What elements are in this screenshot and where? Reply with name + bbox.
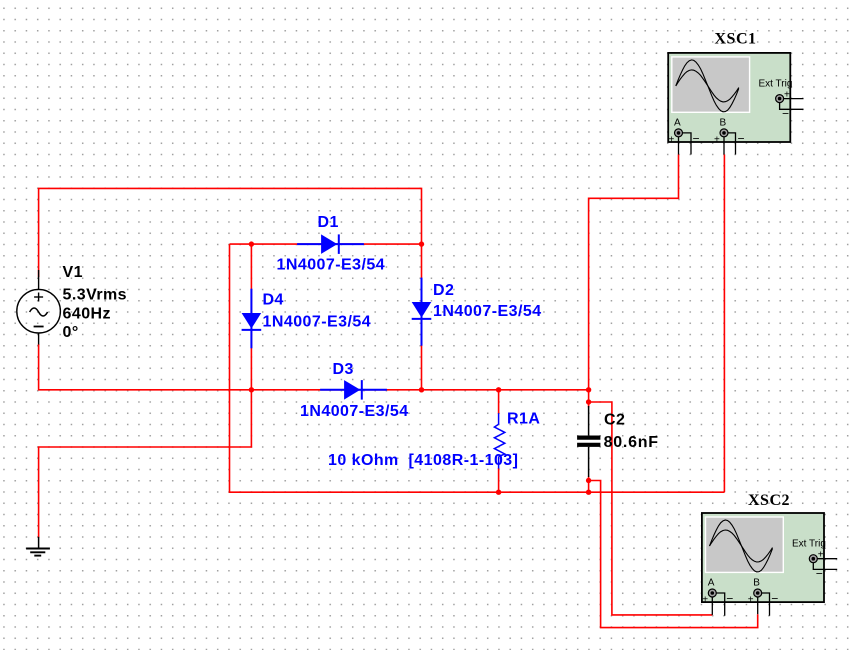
svg-text:B: B: [720, 118, 727, 129]
XSC1 terminal B: [714, 118, 745, 146]
resistor R1A: [494, 413, 504, 468]
XSC1 channel A pin stubs: [679, 133, 692, 155]
svg-text:+: +: [702, 595, 708, 606]
svg-text:C2: C2: [604, 412, 625, 429]
wire left leg and bottom rail: [230, 244, 725, 492]
svg-text:A: A: [708, 578, 715, 589]
XSC2 channel B pin stubs: [758, 593, 770, 616]
XSC2 terminal B: [748, 578, 779, 606]
svg-text:V1: V1: [63, 264, 83, 281]
XSC1 ext trig pin stubs: [780, 99, 804, 110]
svg-text:Ext Trig: Ext Trig: [792, 539, 826, 550]
source V1: [17, 270, 61, 345]
svg-text:Ext Trig: Ext Trig: [759, 79, 793, 90]
node junction C2 bottom rail: [586, 490, 591, 495]
XSC1 terminal A: [669, 118, 700, 146]
wire XSC1 channel A to output node: [589, 155, 679, 390]
svg-text:1N4007-E3/54: 1N4007-E3/54: [277, 257, 386, 274]
node junction XSC2 B tap: [586, 478, 591, 483]
wire XSC1 channel B to bottom rail: [723, 155, 725, 493]
svg-text:+: +: [784, 90, 790, 101]
XSC2 terminal A: [702, 578, 733, 606]
wire ground branch: [39, 390, 252, 538]
wire D4 column: [250, 244, 252, 390]
diode D4: [242, 289, 262, 349]
svg-text:A: A: [674, 118, 681, 129]
svg-text:1N4007-E3/54: 1N4007-E3/54: [300, 403, 409, 420]
XSC1 channel B pin stubs: [724, 133, 736, 155]
wire V1 bottom to D3 row: [39, 344, 589, 390]
svg-text:640Hz: 640Hz: [63, 306, 112, 323]
svg-text:−: −: [738, 132, 745, 146]
node junction D1 anode / D4: [249, 241, 254, 246]
ground: [26, 537, 50, 556]
node junction D1 cathode / D2: [419, 241, 424, 246]
capacitor C2: [577, 406, 600, 477]
oscilloscope XSC1: [668, 53, 790, 142]
svg-text:−: −: [782, 107, 789, 121]
wire D1 row: [230, 243, 422, 245]
node junction D4 / D3 row: [249, 387, 254, 392]
svg-text:−: −: [726, 592, 733, 606]
svg-text:D2: D2: [433, 282, 454, 299]
wire D2 column: [421, 244, 423, 390]
wire top rail from V1 plus to D1 output column: [39, 188, 422, 277]
node junction XSC2 A tap: [586, 399, 591, 404]
svg-text:+: +: [714, 135, 720, 146]
svg-text:+: +: [748, 595, 754, 606]
svg-text:XSC1: XSC1: [715, 31, 757, 48]
svg-text:0°: 0°: [63, 324, 79, 341]
XSC2 ext trig pin stubs: [813, 559, 837, 570]
node junction R1A top: [496, 387, 501, 392]
svg-text:B: B: [753, 578, 760, 589]
wire XSC2 channel B from C2 bottom: [589, 481, 758, 628]
oscilloscope XSC2: [702, 513, 824, 602]
svg-text:R1A: R1A: [507, 411, 540, 428]
node junction C2 top: [586, 387, 591, 392]
diode D3: [320, 380, 387, 400]
XSC1 ext trig terminal: [776, 90, 790, 121]
svg-text:+: +: [669, 135, 675, 146]
svg-text:D3: D3: [333, 361, 354, 378]
svg-text:D1: D1: [318, 214, 339, 231]
svg-text:10 kOhm [4108R-1-103]: 10 kOhm [4108R-1-103]: [328, 452, 518, 469]
svg-text:−: −: [771, 592, 778, 606]
svg-text:1N4007-E3/54: 1N4007-E3/54: [433, 303, 542, 320]
svg-text:5.3Vrms: 5.3Vrms: [63, 287, 128, 304]
svg-text:1N4007-E3/54: 1N4007-E3/54: [263, 314, 372, 331]
node junction D2 / D3 row: [419, 387, 424, 392]
svg-text:80.6nF: 80.6nF: [604, 434, 659, 451]
svg-text:XSC2: XSC2: [748, 492, 790, 509]
svg-text:+: +: [818, 550, 824, 561]
wire C2 branch: [588, 390, 590, 408]
diode D1: [297, 234, 364, 254]
node junction R1A bottom rail: [496, 490, 501, 495]
wire XSC2 channel A from output node: [589, 402, 713, 615]
XSC2 ext trig terminal: [809, 550, 823, 581]
svg-text:−: −: [816, 567, 823, 581]
XSC2 channel A pin stubs: [712, 593, 724, 616]
svg-text:−: −: [693, 132, 700, 146]
svg-text:D4: D4: [263, 292, 284, 309]
diode D2: [412, 278, 432, 346]
wire R1A branch: [498, 390, 500, 414]
